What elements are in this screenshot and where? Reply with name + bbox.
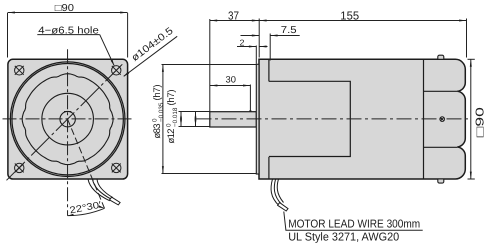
svg-text:MOTOR LEAD WIRE 300mm: MOTOR LEAD WIRE 300mm [288, 219, 420, 231]
svg-text:−0.035: −0.035 [158, 102, 165, 122]
svg-text:−0.018: −0.018 [172, 107, 179, 127]
svg-text:155: 155 [340, 10, 359, 23]
svg-text:4−ø6.5 hole: 4−ø6.5 hole [38, 25, 99, 36]
svg-text:37: 37 [228, 10, 239, 23]
svg-text:ø12: ø12 [166, 129, 177, 144]
svg-text:7.5: 7.5 [281, 25, 297, 36]
svg-text:□90: □90 [475, 107, 487, 137]
svg-text:ø83: ø83 [152, 124, 163, 139]
svg-text:UL Style 3271, AWG20: UL Style 3271, AWG20 [288, 231, 399, 243]
svg-text:30: 30 [226, 75, 236, 85]
svg-text:(h7): (h7) [152, 85, 163, 101]
svg-text:(h7): (h7) [166, 90, 177, 106]
svg-text:2: 2 [240, 37, 245, 47]
svg-text:□90: □90 [55, 3, 75, 14]
